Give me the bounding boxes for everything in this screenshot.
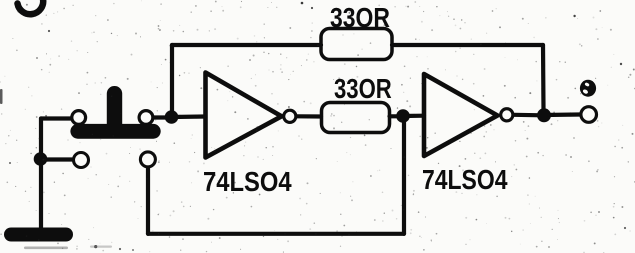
wire: switch upper-right terminal to node A (154, 115, 172, 119)
inverter U1a (74LS04) (206, 73, 296, 158)
wire: bottom feedback riser from node B down (402, 116, 406, 234)
wire: bottom rail (148, 232, 404, 236)
wire: output node to output terminal (544, 112, 580, 117)
pushbutton switch S1: lower-right terminal (140, 152, 155, 167)
pushbutton switch S1: upper-left terminal (72, 111, 86, 125)
wire: R2 to node B (390, 114, 404, 118)
svg-text:74LSO4: 74LSO4 (422, 165, 508, 196)
label: U1a 74LS04 (203, 165, 292, 197)
output terminal (581, 107, 597, 123)
resistor R1 330R (321, 29, 392, 60)
wire: junction to lower-left terminal (41, 157, 72, 161)
ground (4, 228, 73, 242)
wire: right riser down to output node (541, 45, 546, 109)
wire: riser up to switch lower-right terminal (146, 168, 150, 234)
label: R2 value 330R (334, 74, 392, 105)
wire: feedback riser from node A up to top rail (170, 45, 174, 117)
wire: top rail right segment from R1 to right riser (392, 43, 543, 47)
svg-text:74LSO4: 74LSO4 (203, 165, 292, 197)
pushbutton switch S1: upper-right terminal (139, 111, 153, 125)
wire: left vertical rail down to ground (39, 119, 43, 229)
svg-text:33OR: 33OR (334, 74, 392, 105)
wire: U1a output to R2 (297, 114, 322, 118)
wire: top rail left segment to R1 (172, 43, 321, 47)
node: junction on left rail (34, 152, 48, 166)
label: U1b 74LS04 (422, 165, 508, 196)
node A: input of U1a / top feedback tap (165, 110, 179, 124)
label: R1 value 330R (330, 3, 390, 34)
resistor R2 330R (322, 103, 390, 133)
wire: left input from corner to switch upper-left terminal (41, 116, 71, 120)
pushbutton switch S1: lower-left terminal (74, 153, 89, 168)
node B: input of U1b / bottom feedback tap (396, 109, 410, 123)
wire: U1b output to output node (514, 113, 545, 118)
scan artifact: left-edge smudge (0, 89, 3, 104)
label: output theta symbol (580, 80, 596, 97)
svg-text:33OR: 33OR (330, 3, 390, 34)
wire: node B to U1b input (403, 114, 424, 119)
wire: node A to U1a input (172, 114, 206, 119)
node: output junction (537, 108, 551, 122)
figure number fragment (cropped digit) (18, 0, 44, 14)
inverter U1b (74LS04) (424, 74, 513, 156)
scan artifact: smudge under ground bar (24, 247, 68, 250)
pushbutton switch S1: actuator bar and stem (70, 86, 160, 139)
